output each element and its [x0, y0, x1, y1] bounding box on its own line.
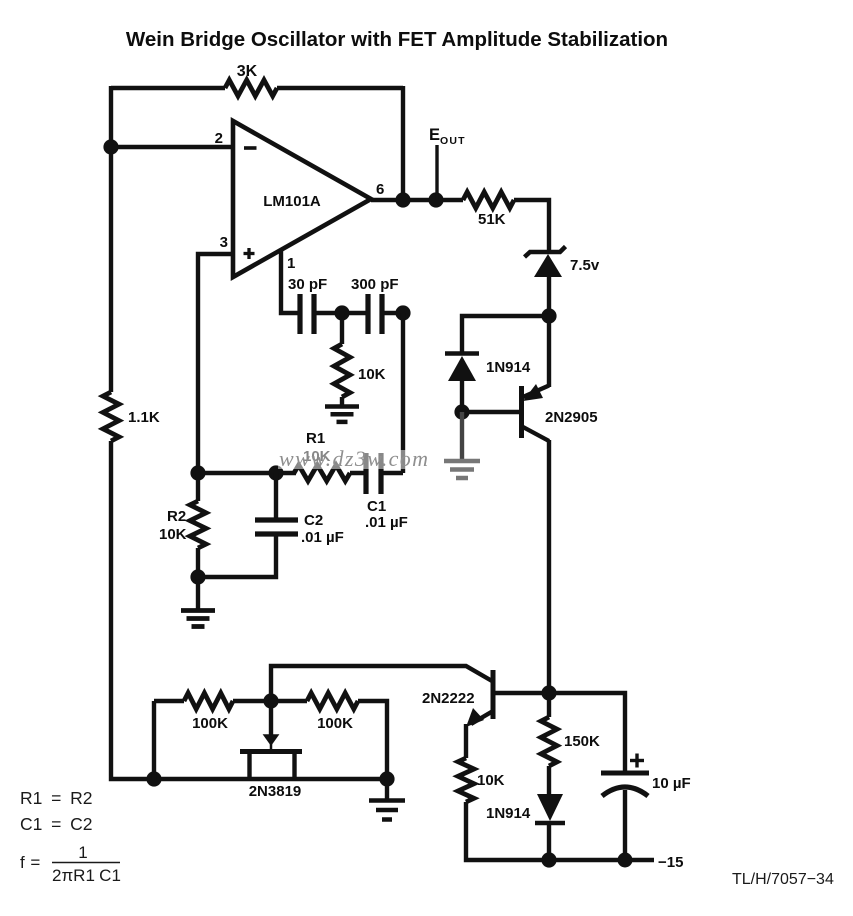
wire: 300 pF to output vertical	[382, 311, 403, 315]
svg-text:www.dz3w.com: www.dz3w.com	[279, 446, 429, 471]
op-amp minus sign	[244, 146, 257, 150]
wire: 100K branch riser	[152, 701, 156, 779]
svg-text:7.5v: 7.5v	[570, 257, 600, 274]
wire: emitter resistor to minus-15 rail	[466, 802, 654, 860]
node: R1 C2 junction	[268, 465, 283, 480]
svg-text:C1: C1	[367, 498, 386, 515]
wire: R2 top stem	[196, 473, 200, 501]
wire: zener to junction	[547, 277, 551, 316]
wire: output pin 6 to 51K	[371, 198, 463, 202]
wire: R1 to C1	[350, 471, 368, 475]
node: FET gate junction	[263, 693, 278, 708]
svg-text:−15: −15	[658, 854, 683, 871]
wire: bridge ground stem	[196, 577, 200, 611]
svg-text:51K: 51K	[478, 211, 506, 228]
resistor 51K	[463, 192, 514, 208]
resistor 100K right	[307, 693, 358, 709]
transistor Q1 2N2905	[519, 386, 524, 438]
node: inverting input junction	[103, 139, 118, 154]
node: output vertical at 300 pF	[395, 305, 410, 320]
node: compensation junction	[334, 305, 349, 320]
svg-text:2πR1 C1: 2πR1 C1	[52, 866, 121, 885]
ground: FET source	[369, 798, 405, 803]
capacitor 30 pF	[297, 294, 302, 334]
wire: 51K to zener	[514, 200, 549, 252]
svg-text:100K: 100K	[192, 715, 228, 732]
svg-text:3K: 3K	[237, 63, 258, 80]
wire: top feedback rail left	[111, 86, 225, 90]
node: bottom-left rail junction	[146, 771, 161, 786]
node: 2N2222 collector junction	[541, 685, 556, 700]
svg-text:2N2222: 2N2222	[422, 690, 475, 707]
svg-text:150K: 150K	[564, 733, 600, 750]
wire: junction to 1N914 cathode	[462, 316, 549, 354]
capacitor 10uF electrolytic with plus sign	[601, 771, 649, 776]
watermark fade band	[278, 450, 433, 469]
wire: Eout stub	[435, 145, 438, 200]
resistor R1 10K	[294, 465, 350, 481]
resistor 3K	[225, 80, 277, 96]
capacitor 300 pF	[365, 294, 370, 334]
wire: emitter feed from junction	[547, 316, 551, 387]
resistor 10K emitter	[458, 758, 474, 802]
wire: 1N914 bias to rail	[547, 823, 551, 860]
node: rail at 10uF	[618, 853, 633, 868]
wire: riser to 100K left	[154, 699, 184, 703]
wire: collector node to 10uF	[549, 693, 625, 772]
wire: C1 to output vertical	[381, 471, 403, 475]
wire: 10uF to rail	[623, 790, 627, 860]
svg-text:100K: 100K	[317, 715, 353, 732]
wire: base node ground stem	[460, 412, 464, 460]
svg-text:1N914: 1N914	[486, 359, 531, 376]
wire: 1N914 anode to base node	[460, 381, 464, 412]
svg-text:2N3819: 2N3819	[249, 783, 302, 800]
svg-text:LM101A: LM101A	[263, 193, 321, 210]
capacitor C2	[255, 517, 298, 522]
svg-text:TL/H/7057−34: TL/H/7057−34	[732, 871, 834, 888]
ground: compensation	[325, 404, 359, 409]
node: non-inverting input junction	[190, 465, 205, 480]
wire: inverting input pin 2	[111, 145, 233, 149]
svg-text:2N2905: 2N2905	[545, 409, 598, 426]
wire: R2 bottom stem	[196, 548, 200, 577]
wire: 150K to 1N914 bias	[547, 766, 551, 795]
transistor Q2 2N2222	[491, 670, 496, 719]
resistor 10K compensation	[334, 344, 350, 397]
wire: non-inverting input pin 3	[198, 254, 233, 473]
wire: base of 2N2905	[462, 410, 520, 414]
diode 1N914 bias	[537, 794, 563, 821]
node: 2N2905 base junction	[454, 404, 469, 419]
wire: FET gate lead	[269, 701, 273, 736]
wire: FET rail ground stem	[385, 779, 389, 801]
wire: C2 top stem	[274, 473, 278, 521]
svg-text:R2: R2	[167, 508, 186, 525]
resistor 1.1K	[103, 392, 119, 441]
svg-text:6: 6	[376, 181, 384, 198]
svg-text:R1 = R2: R1 = R2	[20, 788, 92, 808]
svg-text:1N914: 1N914	[486, 805, 531, 822]
wire: 100K right to source rail	[358, 701, 387, 779]
wire: left vertical lower and bottom-left rail	[111, 441, 387, 779]
svg-text:f =: f =	[20, 853, 40, 872]
wire: top feedback rail right	[277, 86, 403, 90]
FET gate arrow	[263, 734, 280, 746]
resistor 150K	[541, 717, 557, 766]
capacitor C1	[363, 453, 368, 494]
node: zener clamp junction	[541, 308, 556, 323]
wire: 100K left to gate node	[233, 699, 271, 703]
node: Eout tap	[428, 192, 443, 207]
wire: output vertical down to C1 row	[401, 313, 405, 473]
wire: pin 1 compensation stub	[281, 250, 302, 313]
ground: bridge	[181, 608, 215, 613]
svg-text:R1: R1	[306, 430, 325, 447]
svg-text:C2: C2	[304, 512, 323, 529]
op-amp U1 LM101A	[233, 121, 371, 277]
wire: gate node riser to 2N2222 base	[271, 666, 492, 701]
wire: compensation 10K top stem	[340, 313, 344, 344]
svg-text:10K: 10K	[358, 366, 386, 383]
wire: C2 bottom to junction	[198, 534, 276, 577]
wire: right vertical top rail to output node	[401, 86, 405, 200]
svg-text:.01 µF: .01 µF	[301, 529, 344, 546]
node: output pin 6 junction	[395, 192, 410, 207]
wire: between compensation capacitors	[314, 311, 368, 315]
svg-text:3: 3	[220, 234, 228, 251]
node: bridge ground junction	[190, 569, 205, 584]
svg-text:C1 = C2: C1 = C2	[20, 814, 92, 834]
wire: non-inverting row left	[198, 471, 296, 475]
svg-text:10 µF: 10 µF	[652, 775, 691, 792]
wire: 150K top stem	[547, 693, 551, 717]
svg-text:2: 2	[215, 130, 223, 147]
svg-text:1: 1	[78, 843, 87, 862]
resistor 100K left	[184, 693, 233, 709]
op-amp plus sign	[244, 252, 255, 255]
wire: 10K to ground	[340, 397, 344, 407]
wire: left vertical upper	[109, 86, 113, 392]
svg-text:1: 1	[287, 255, 295, 272]
svg-text:Wein Bridge Oscillator with FE: Wein Bridge Oscillator with FET Amplitud…	[126, 28, 668, 51]
svg-text:10K: 10K	[159, 526, 187, 543]
svg-text:300 pF: 300 pF	[351, 276, 399, 293]
ground: clamp diode	[444, 459, 480, 464]
svg-text:1.1K: 1.1K	[128, 409, 160, 426]
transistor Q3 2N3819 JFET	[240, 749, 302, 754]
svg-text:30 pF: 30 pF	[288, 276, 327, 293]
node: rail at 1N914	[541, 852, 556, 867]
wire: 2N2905 collector run	[547, 440, 551, 693]
diode 1N914 clamp	[445, 351, 479, 356]
zener diode 7.5v	[525, 247, 566, 258]
wire: gate node to 100K right	[271, 699, 307, 703]
node: FET source rail junction	[379, 771, 394, 786]
svg-text:.01 µF: .01 µF	[365, 514, 408, 531]
svg-text:10K: 10K	[477, 772, 505, 789]
wire: 2N2222 emitter drop	[464, 724, 468, 758]
resistor R2 10K	[190, 501, 206, 548]
